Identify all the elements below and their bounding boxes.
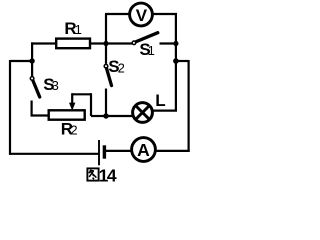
switch S1 pivot circle [132,41,136,45]
caption figure 图 glyph drawn [87,168,98,180]
wire ammeter right lead [157,150,190,152]
wire top-left horizontal to R1 [31,42,56,44]
svg-text:1: 1 [148,43,155,58]
svg-text:14: 14 [99,166,117,186]
switch S2 blade [107,69,112,86]
wire S2 lower terminal to J2 [105,89,107,117]
voltmeter V meter circle [130,3,153,26]
svg-text:A: A [137,140,150,160]
wire wiper top horizontal [72,93,91,95]
wire S1 right terminal to right vertical [160,42,177,44]
node junction dot branch at (176,61) [173,58,179,64]
node J2 junction dot [103,113,108,118]
switch S1 blade [136,33,158,42]
rheostat wiper arrowhead [69,103,75,111]
wire top-left corner vertical down to node J3 [31,42,33,62]
switch S2 pivot circle [104,64,108,68]
svg-text:1: 1 [75,22,82,37]
switch S3 upper wire [31,61,33,76]
svg-text:2: 2 [70,122,77,137]
wire R2 left lead [31,114,49,116]
wire wiper drop vertical x=91 [90,93,92,116]
wire left branch horizontal [10,60,32,62]
node junction dot S1 at right vertical [173,41,178,46]
svg-text:L: L [155,91,165,110]
wire voltmeter top horizontal left lead [105,13,129,15]
wire bottom horizontal to battery [9,153,99,155]
wire branch to outer right edge [176,60,189,62]
switch S3 blade [33,81,40,97]
wire outer right vertical x=188 [188,60,190,152]
svg-text:V: V [136,6,148,25]
wire lamp left lead to node J2 [106,115,133,117]
wire lamp right lead corner [153,109,177,111]
switch S2 upper wire from J1 [105,44,107,64]
battery long plate (positive) [98,140,100,165]
wire voltmeter right lead [153,13,177,15]
ammeter A meter circle [132,138,156,162]
svg-text:3: 3 [52,78,59,93]
wire battery to ammeter [106,150,131,152]
rheostat R2 body [49,110,85,119]
battery short plate (negative) [103,145,106,158]
wire R1 right lead to S1 pivot [90,42,133,44]
wire outer left vertical x=10 [9,60,11,155]
wire S3 lower terminal down to R2 corner [31,101,33,116]
wire right vertical x=176 from voltmeter corner down to lamp corner [175,13,177,112]
switch S3 pivot circle [30,77,34,81]
wire voltmeter riser vertical [105,14,107,44]
node J1 junction dot [103,41,108,46]
svg-text:2: 2 [118,60,125,75]
lamp L circle [133,103,153,123]
node J3 junction dot left branch [29,58,34,63]
wire J2 to wiper drop horizontal [91,115,106,117]
rheostat wiper stem with arrowhead [71,93,73,103]
lamp X cross [136,106,150,120]
resistor R1 [56,39,90,49]
